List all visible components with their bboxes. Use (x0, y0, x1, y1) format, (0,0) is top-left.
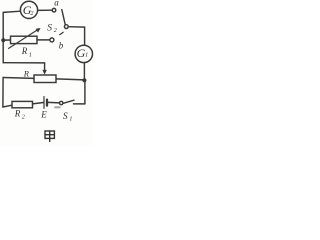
junction dot right (82, 78, 86, 82)
wire R to junction (56, 79, 84, 80)
wire left vertical lower (2, 78, 4, 108)
svg-text:R: R (23, 69, 30, 79)
scan smudge near S1 (54, 106, 61, 108)
wire dot to R1 (4, 39, 10, 41)
terminal a (52, 8, 56, 12)
wire bottom left (3, 105, 12, 107)
svg-text:S: S (63, 112, 68, 122)
svg-text:1: 1 (29, 52, 32, 58)
battery E long plate (43, 97, 45, 109)
slider arrow R (42, 63, 46, 75)
wire E to S1 (48, 101, 60, 104)
wire left vertical upper (2, 12, 4, 62)
wire R left (3, 77, 34, 80)
battery E short plate (46, 100, 48, 106)
svg-text:2: 2 (30, 10, 34, 17)
wire top-left (3, 11, 20, 12)
switch S2 pivot (64, 25, 68, 29)
label R2 (14, 109, 25, 121)
svg-text:1: 1 (69, 116, 72, 122)
svg-text:2: 2 (22, 115, 25, 121)
label G1 (77, 46, 89, 60)
R1 arrow (9, 28, 41, 49)
wire R2 to E (33, 103, 44, 104)
rheostat R box (34, 75, 56, 83)
svg-text:b: b (59, 41, 64, 51)
character jia (figure label) (45, 131, 54, 142)
terminal b (50, 38, 54, 42)
wire G1 to junction (83, 63, 85, 80)
switch S1 terminal (60, 101, 63, 104)
wire right vertical bottom (84, 80, 86, 104)
switch S2 lever (62, 10, 66, 25)
svg-text:2: 2 (54, 28, 57, 34)
resistor R1 (11, 36, 38, 43)
wire S1 to corner (74, 103, 85, 105)
wire right vertical upper (84, 27, 86, 45)
wire R1 to b (37, 39, 50, 41)
switch S2 lower dash (60, 32, 64, 35)
galvanometer G1 (75, 45, 92, 62)
svg-text:1: 1 (85, 52, 88, 59)
slider feed wire (3, 62, 44, 64)
label G2 (23, 3, 35, 17)
svg-text:R: R (21, 46, 28, 56)
resistor R2 (12, 101, 33, 107)
wire G2 to a (38, 9, 53, 11)
label S2 (47, 24, 57, 35)
label S1 (63, 112, 73, 122)
node dot junction left (1, 38, 5, 42)
galvanometer G2 (20, 1, 37, 18)
wire pivot to corner (68, 26, 84, 28)
svg-text:R: R (14, 109, 21, 119)
svg-text:S: S (47, 24, 52, 34)
label R1 (21, 46, 32, 58)
svg-text:E: E (40, 109, 47, 119)
switch S1 lever (63, 100, 74, 103)
svg-text:a: a (54, 0, 59, 7)
